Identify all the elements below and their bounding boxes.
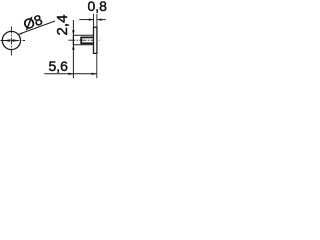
dim 0,8 right arrow xyxy=(97,18,102,20)
dim 5,6 line with left tail xyxy=(44,73,97,75)
shaft left end face xyxy=(72,35,74,45)
dim 5,6 right extension line xyxy=(96,54,98,78)
leader line to Ø8 label xyxy=(18,21,55,34)
diameter dimension arrow right (inside circle) xyxy=(13,39,20,42)
svg-text:0,8: 0,8 xyxy=(87,0,107,14)
dim 0,8 left tail xyxy=(79,19,93,21)
svg-text:2,4: 2,4 xyxy=(54,15,71,36)
dimension line vertical at shaft end (2,4 dim + 5,6 extension) xyxy=(72,20,74,78)
centerline of shaft (side view) xyxy=(68,39,99,41)
inner detail top edge (thick) xyxy=(81,36,93,38)
dim 0,8 extension line right xyxy=(96,14,98,27)
dim 0,8 extension line left xyxy=(93,14,95,27)
dim 0,8 right tail xyxy=(97,19,106,21)
inner detail left edge (thick) xyxy=(80,37,82,45)
shaft top edge xyxy=(73,34,93,36)
centerline vertical (front view) xyxy=(10,27,12,56)
shaft bottom edge xyxy=(73,44,93,46)
diameter dimension arrow left (inside circle) xyxy=(3,39,10,42)
dim 2,4 arrow bottom xyxy=(72,45,75,50)
inner detail bottom edge (thick) xyxy=(81,42,93,44)
centerline horizontal (front view) xyxy=(1,40,26,42)
head outline circle (front view, Ø8) xyxy=(2,31,20,49)
dim 2,4 arrow top xyxy=(72,30,75,35)
leader arrowhead at circle xyxy=(18,33,22,35)
dim 0,8 left arrow xyxy=(89,18,94,20)
svg-text:5,6: 5,6 xyxy=(48,58,68,74)
dim 5,6 left arrow xyxy=(68,73,74,75)
head (side view, thin disc) xyxy=(94,27,97,53)
dim 5,6 right arrow xyxy=(92,73,98,75)
